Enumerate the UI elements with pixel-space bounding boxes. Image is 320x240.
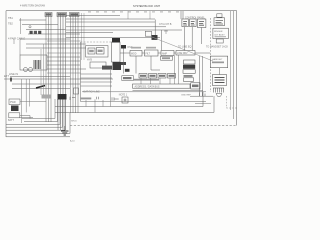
border right inner 2 (230, 11, 232, 110)
right col h-line (190, 95, 213, 97)
block B1 (130, 51, 142, 57)
wire left stub 3 (26, 28, 66, 30)
svg-text:XMT RCV LINE: XMT RCV LINE (83, 91, 100, 94)
wire lower left 2 (4, 78, 113, 80)
svg-text:LINE IN: LINE IN (9, 72, 18, 76)
enclosure inner left edge (80, 42, 82, 102)
tr box A small cap (217, 14, 222, 17)
wire left stub 4 (28, 33, 80, 35)
wire box C to box D (219, 68, 221, 75)
upper long wire 4 (66, 26, 166, 28)
tr box B text3 (215, 36, 227, 38)
crossing verticals mid (41, 44, 44, 95)
bus group C (71, 13, 79, 113)
dashed sub-enclosure corner h (226, 107, 236, 109)
tr small box 3 (197, 19, 206, 28)
drop from B2 (151, 56, 160, 70)
drop from wire3 (154, 20, 156, 36)
bus group B header text (58, 13, 66, 15)
tr small box below B (216, 39, 223, 43)
tr small box 2 (190, 19, 197, 27)
svg-text:TO HANDSET JACK: TO HANDSET JACK (206, 46, 229, 49)
row box 4 text (169, 75, 175, 77)
block B4 (176, 51, 195, 56)
tr box 3 text (199, 22, 204, 26)
upper long wire 1 (66, 15, 120, 17)
row box 1 (139, 74, 147, 79)
dashed sub-enclosure corner v (225, 96, 227, 108)
tr box A text (216, 21, 224, 24)
row box 4 (168, 74, 176, 79)
svg-text:HYB: HYB (87, 59, 92, 62)
upper long wire 3 (66, 21, 155, 23)
bottom long wire riser b (213, 96, 215, 112)
faint label above B2 (146, 47, 156, 49)
tr box 2 text (191, 22, 195, 25)
tr box B (213, 28, 229, 38)
svg-text:A-10: A-10 (70, 140, 75, 143)
tr drop 1 (184, 27, 186, 51)
tick marks upper (164, 30, 168, 34)
bus right small box text (192, 85, 199, 88)
cap symbol (112, 97, 119, 100)
ground symbol (61, 131, 69, 135)
tr wire tops (181, 11, 183, 19)
rm stack box 3 (184, 78, 194, 82)
border top (6, 10, 237, 12)
right box D text rows (215, 78, 225, 83)
right tall box C (210, 56, 227, 68)
symbol row drops (86, 88, 111, 112)
rm stack text (184, 75, 193, 77)
transformer core hatch (34, 60, 40, 69)
dark mark right of IC bottom (121, 62, 126, 65)
bottom long wire 2 (55, 111, 214, 113)
tr box A (214, 18, 225, 26)
fuse slanted dark mark (36, 86, 45, 89)
upper long wire 7 (66, 37, 160, 39)
dense connector block on bus (58, 94, 67, 100)
rm stack dark block (183, 65, 195, 69)
border right inner 1 (233, 11, 235, 119)
wire from T1 a (47, 56, 80, 58)
dashed enclosure bottom (70, 125, 237, 127)
wire right col (198, 56, 200, 96)
bottom fan wire 0 (22, 99, 55, 119)
power supply box (9, 99, 20, 105)
row box 2 (149, 74, 157, 79)
svg-text:TB2: TB2 (8, 22, 13, 26)
block B2 (145, 50, 159, 56)
bottom long wire 1 (55, 106, 203, 108)
tr drop 3 (200, 27, 202, 44)
bottom long wire riser a (202, 92, 204, 107)
box C text strip (212, 62, 224, 64)
drop from B1 (135, 56, 137, 74)
svg-text:AMP: AMP (162, 52, 167, 55)
svg-text:FILT: FILT (146, 53, 151, 55)
svg-text:4 PAIR CABLE: 4 PAIR CABLE (8, 37, 26, 41)
small row box L text (123, 77, 132, 79)
top border stub verticals (128, 11, 150, 19)
IC bottom drop (110, 70, 112, 88)
svg-text:EXT: EXT (4, 75, 9, 78)
small circle junction (29, 26, 31, 28)
svg-text:GND REF: GND REF (181, 94, 192, 96)
row box 1 text (140, 75, 146, 77)
IC tall block outline (112, 42, 121, 62)
bus group A (46, 13, 51, 122)
wire IC to B1 (120, 52, 130, 54)
wire pair 2 (26, 43, 86, 45)
svg-text:RINGER: RINGER (214, 31, 223, 33)
border left (5, 11, 7, 137)
connector dark squares (30, 31, 33, 34)
transformer coil left (24, 68, 28, 72)
enclosure mid bottom line (82, 91, 206, 93)
IC dark top cap (112, 38, 120, 43)
wire grid b (47, 52, 81, 54)
svg-text:4-WIRE TERM DIAGRAM: 4-WIRE TERM DIAGRAM (20, 4, 45, 8)
transformer coil right (29, 68, 33, 72)
svg-text:BATT: BATT (8, 119, 14, 122)
filter box (90, 62, 106, 68)
svg-text:SHLD: SHLD (71, 121, 77, 123)
svg-text:NOTE 1: NOTE 1 (119, 95, 128, 97)
diagonal crease (152, 37, 213, 61)
wire grid c (47, 72, 81, 74)
hybrid inner box 1 (88, 48, 95, 54)
bottom fan wire 1 (24, 99, 58, 122)
mid symbol b (97, 97, 99, 100)
bus group B header (57, 13, 67, 17)
svg-text:CKT ASSY: CKT ASSY (214, 34, 225, 37)
wire from T1 c (47, 64, 80, 66)
hybrid outer box (86, 46, 108, 57)
crossing verticals lower-left (22, 79, 30, 123)
hybrid inner box 2 (96, 48, 104, 54)
rm stack box 2 (183, 70, 195, 74)
bottom fan wire 2 (6, 99, 60, 124)
battery wire b (20, 117, 33, 119)
bus faint extras (82, 13, 85, 60)
inner dashed right edge (209, 18, 211, 92)
bottom fan wire 4 (6, 99, 65, 130)
connector arrow mark (10, 78, 12, 82)
short line right (195, 102, 211, 104)
small box under B3 (161, 56, 173, 60)
wire grid a (47, 40, 81, 42)
row box 3 (158, 74, 166, 79)
tr box 1 text (183, 22, 187, 25)
border tick labels (88, 11, 179, 12)
svg-text:ADDRESS / DATA BUS: ADDRESS / DATA BUS (135, 85, 160, 88)
enclosure inner bottom edge (81, 101, 207, 103)
bus group B (58, 13, 66, 130)
hybrid box2 text (98, 50, 103, 52)
row labels (133, 79, 159, 81)
tr small box 1 (182, 19, 188, 27)
wire pair 1 (20, 38, 70, 40)
relay dark blob (11, 106, 19, 112)
drop from B3 (174, 56, 176, 85)
svg-text:HANDSET: HANDSET (212, 58, 223, 61)
wire from power box (20, 101, 46, 103)
crystal dark blob (152, 35, 158, 40)
right col tick marks (199, 93, 205, 97)
right box D (213, 75, 227, 86)
border bottom-left (6, 136, 70, 138)
row box 2 text (150, 75, 156, 77)
block B3 (161, 51, 174, 56)
hatch text block right of fuse (42, 95, 52, 99)
wire B1 to B2 (142, 52, 145, 54)
wire left stub 2 (22, 24, 58, 26)
IC dark bottom rows (113, 62, 122, 70)
mid symbol a (70, 97, 75, 100)
svg-text:LINE DRV: LINE DRV (177, 53, 188, 55)
svg-text:TB1: TB1 (8, 16, 13, 20)
bus group A header (45, 13, 52, 17)
drop to T1 (14, 39, 20, 55)
IC left pin wires (81, 74, 113, 86)
wire lower left 4 (12, 88, 70, 90)
long bus line pair (133, 90, 204, 92)
upper long wire 2 (66, 18, 155, 20)
dark text cluster below filter (102, 66, 112, 70)
rm stack box 1 (184, 60, 196, 64)
bottom fan wire 3 (6, 99, 63, 127)
svg-text:MOD: MOD (131, 54, 137, 56)
wire from T1 b (47, 60, 80, 62)
small row box L (122, 76, 134, 81)
dark box x1 (121, 45, 126, 49)
svg-text:SYSTEM BLOCK UNIT: SYSTEM BLOCK UNIT (133, 4, 160, 8)
crystal box with plus (122, 97, 128, 103)
upper long wire 6 (66, 32, 113, 34)
small box under B3 text (162, 57, 170, 59)
bus group A header text (46, 13, 51, 15)
drop from x1 (122, 49, 124, 74)
bus group C header text (71, 13, 79, 15)
crystal box (145, 31, 151, 36)
right trapezoid (216, 94, 222, 97)
long bus box (133, 84, 191, 88)
right connector hatch (213, 88, 224, 93)
ground stem (64, 126, 66, 131)
left bracket vertical (20, 18, 22, 34)
wire lower left 1 (10, 76, 70, 78)
svg-text:PWR: PWR (10, 101, 16, 104)
mid text row (80, 98, 91, 100)
drop to crystal (160, 30, 162, 50)
wire lower left 3 (12, 83, 80, 85)
drop from B4 (178, 55, 180, 84)
upper long wire 5 (66, 29, 182, 31)
bus right small box (191, 83, 200, 89)
wire B4 to box C (195, 52, 210, 54)
wire left stub 1 (19, 19, 46, 21)
battery wire a (20, 116, 30, 119)
line transformer box T1 (20, 55, 47, 70)
small box on bus (74, 88, 79, 94)
wire pair 3 (26, 47, 86, 49)
wire right col 2 (201, 56, 203, 96)
bus group C header (70, 13, 80, 17)
row box stubs (141, 78, 170, 84)
wire B2 to B3 (158, 52, 161, 54)
inner enclosure top dash (81, 41, 112, 43)
svg-text:CH A CH B: CH A CH B (159, 23, 172, 26)
row box 3 text (159, 75, 165, 77)
border right outer (236, 11, 238, 126)
wire from T1 d (47, 68, 86, 70)
tr drop 2 (191, 27, 193, 51)
hybrid box1 text (89, 50, 94, 52)
wire B3 to B4 (174, 52, 176, 54)
faint label above B1 (131, 47, 141, 49)
battery box (9, 113, 20, 118)
crystal plus marks (124, 99, 127, 102)
dark blob above row (125, 69, 130, 72)
bottom fan wire 5 (6, 113, 70, 133)
